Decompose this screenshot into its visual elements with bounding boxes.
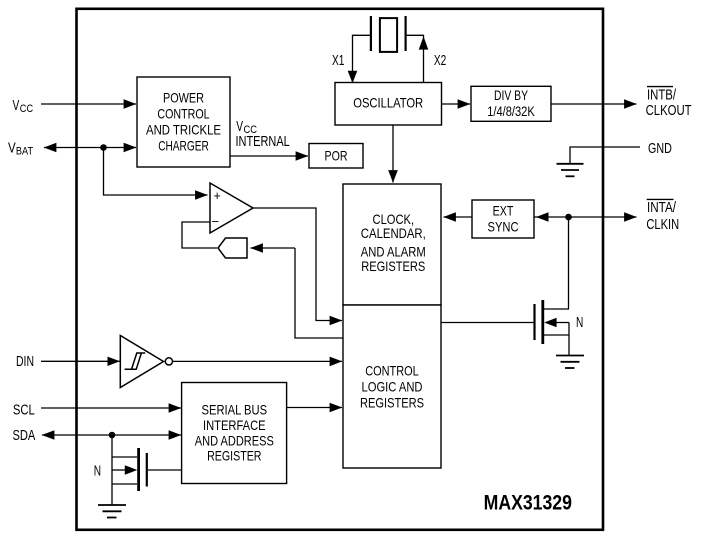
svg-text:CHARGER: CHARGER — [158, 138, 209, 154]
svg-text:N: N — [94, 463, 101, 480]
svg-text:POWER: POWER — [163, 90, 204, 106]
wire X2 oscillator to crystal — [406, 35, 429, 83]
schmitt trigger buffer — [120, 336, 172, 388]
block CLOCK CALENDAR AND ALARM REGISTERS — [343, 184, 441, 305]
ground symbol at Q2 source — [556, 356, 584, 369]
svg-text:EXT: EXT — [493, 202, 514, 218]
wire INTA/CLKIN to ext sync — [534, 212, 637, 222]
svg-text:REGISTERS: REGISTERS — [361, 258, 425, 274]
node INTA junction — [565, 214, 572, 221]
wire oscillator to clock registers — [392, 125, 394, 183]
wire comparator output to control logic — [253, 208, 342, 321]
svg-text:SYNC: SYNC — [488, 218, 519, 234]
svg-text:−: − — [212, 214, 220, 229]
svg-text:LOGIC AND: LOGIC AND — [362, 378, 423, 394]
wire control logic to Q2 gate — [441, 322, 533, 324]
svg-text:OSCILLATOR: OSCILLATOR — [353, 94, 423, 110]
wire SCL input — [41, 407, 181, 409]
svg-text:DIN: DIN — [16, 353, 34, 370]
svg-text:REGISTER: REGISTER — [207, 448, 261, 464]
svg-text:REGISTERS: REGISTERS — [360, 394, 424, 410]
svg-text:SCL: SCL — [13, 401, 35, 418]
node VBAT junction — [100, 144, 107, 151]
svg-text:1/4/8/32K: 1/4/8/32K — [487, 103, 535, 119]
wire VBAT bidirectional — [44, 147, 136, 149]
wire X1 crystal to oscillator — [348, 35, 371, 83]
svg-text:CLKIN: CLKIN — [646, 216, 679, 233]
svg-text:AND ADDRESS: AND ADDRESS — [195, 432, 274, 448]
chip outline border — [77, 9, 604, 530]
svg-text:INTERNAL: INTERNAL — [236, 133, 290, 150]
wire DIN input — [41, 360, 120, 362]
svg-text:POR: POR — [325, 148, 348, 164]
pin label INTA/CLKIN — [646, 199, 679, 233]
wire SDA bidirectional — [42, 434, 181, 436]
svg-text:CONTROL: CONTROL — [157, 106, 209, 122]
wire VCC input — [41, 103, 136, 105]
block DIV BY 1/4/8/32K — [471, 86, 551, 121]
wire INTA junction to mosfet drain — [568, 217, 570, 309]
svg-text:INTERFACE: INTERFACE — [203, 417, 266, 433]
svg-text:CLKOUT: CLKOUT — [646, 102, 692, 119]
svg-text:CONTROL: CONTROL — [365, 362, 419, 378]
svg-text:X1: X1 — [332, 52, 344, 69]
svg-text:AND TRICKLE: AND TRICKLE — [146, 122, 221, 138]
svg-text:V: V — [13, 97, 20, 114]
wire div-by to INTB/CLKOUT pin — [551, 103, 637, 105]
svg-text:+: + — [214, 189, 221, 203]
svg-text:SDA: SDA — [13, 427, 36, 444]
pin label INTB/CLKOUT — [646, 87, 692, 120]
net label VCC INTERNAL — [236, 118, 290, 150]
svg-text:CC: CC — [20, 103, 33, 115]
pin label VBAT — [8, 139, 33, 157]
wire ext sync to clock registers — [444, 216, 473, 218]
ground symbol at Q1 source — [98, 505, 126, 518]
ground symbol at GND pin — [557, 164, 584, 177]
svg-text:INTA/: INTA/ — [647, 199, 677, 216]
svg-text:X2: X2 — [434, 52, 446, 69]
svg-text:MAX31329: MAX31329 — [484, 490, 572, 514]
node SDA junction — [109, 432, 116, 439]
wire comparator - feedback loop — [182, 222, 217, 248]
wire Q2 source to ground — [568, 323, 570, 356]
block CONTROL LOGIC AND REGISTERS — [343, 305, 441, 468]
crystal Y1 — [371, 16, 406, 52]
block SERIAL BUS INTERFACE AND ADDRESS REGISTER — [182, 383, 287, 484]
reference mux pentagon — [218, 238, 247, 258]
svg-text:CALENDAR,: CALENDAR, — [361, 225, 426, 241]
wire VCC INTERNAL to POR — [230, 155, 308, 157]
svg-text:DIV BY: DIV BY — [494, 87, 528, 103]
transistor Q2 N-MOSFET — [535, 300, 570, 344]
wire control to reference pentagon — [251, 248, 344, 338]
svg-text:BAT: BAT — [16, 146, 33, 158]
svg-text:GND: GND — [648, 140, 672, 157]
svg-text:V: V — [8, 139, 16, 156]
wire GND pin — [570, 147, 640, 163]
wire schmitt output to control logic — [173, 360, 342, 362]
block EXT SYNC — [472, 200, 534, 238]
svg-text:AND ALARM: AND ALARM — [361, 244, 426, 260]
block U1 POWER CONTROL AND TRICKLE CHARGER — [137, 77, 230, 167]
svg-text:INTB/: INTB/ — [647, 87, 677, 104]
op-amp comparator — [210, 183, 253, 233]
wire oscillator to div-by — [442, 103, 471, 105]
block OSCILLATOR — [335, 83, 442, 126]
wire VBAT junction to comparator + input — [104, 148, 208, 196]
svg-text:N: N — [576, 314, 583, 331]
svg-text:SERIAL BUS: SERIAL BUS — [202, 402, 268, 418]
wire serial bus to control logic — [287, 407, 342, 409]
block POR — [309, 144, 363, 169]
wire SDA junction to mosfet and ground — [111, 435, 113, 505]
pin label VCC — [13, 97, 34, 115]
transistor Q1 N-MOSFET SDA — [112, 448, 182, 491]
